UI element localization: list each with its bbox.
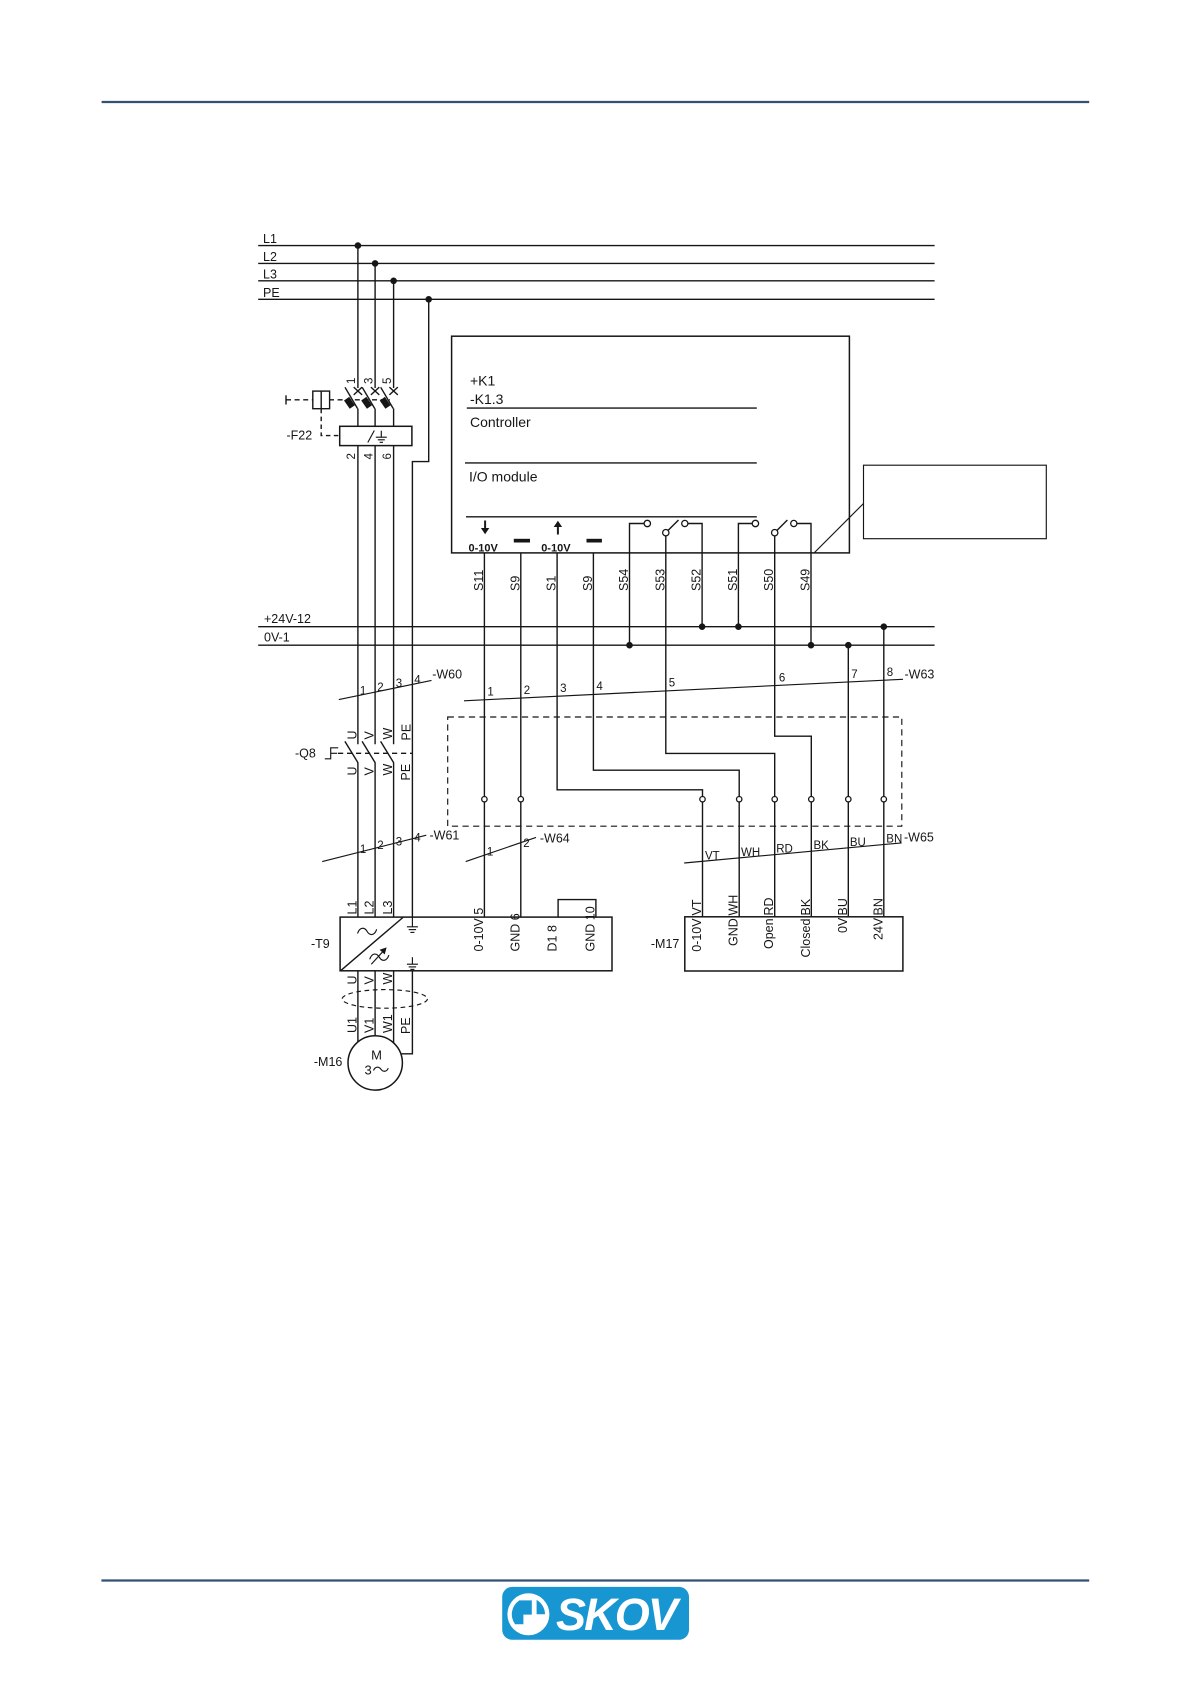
cable W60 marker line (339, 680, 432, 699)
relay S50 pivot circle (772, 530, 778, 536)
svg-text:1: 1 (487, 687, 493, 699)
callout leader line (814, 504, 863, 553)
wire L1 phase middle (357, 446, 359, 745)
controller divider line 1 (467, 407, 757, 409)
svg-text:3: 3 (560, 683, 566, 695)
svg-text:PE: PE (399, 1017, 413, 1034)
junction L1 tap (355, 242, 362, 249)
relay S49 stub (797, 524, 811, 553)
svg-text:1: 1 (360, 844, 366, 856)
svg-text:5: 5 (382, 378, 394, 384)
shielded cable dashed oval (342, 990, 427, 1009)
svg-text:RD: RD (762, 897, 776, 915)
analog input arrow S1 (554, 521, 562, 535)
svg-text:1: 1 (360, 686, 366, 698)
svg-text:W1: W1 (381, 1014, 395, 1033)
relay S52 stub (688, 524, 702, 553)
switch Q8 blade pole2 (362, 741, 375, 762)
controller divider line 3 (466, 516, 757, 518)
T9 jumper D1 to GND10 (558, 900, 596, 918)
junction S52 to +24V (699, 623, 706, 630)
breaker F22 overload pole2 (364, 399, 370, 407)
svg-text:WH: WH (741, 847, 760, 859)
SKOV logo plate (502, 1587, 689, 1640)
svg-text:GND: GND (727, 918, 741, 946)
svg-text:4: 4 (414, 674, 421, 686)
breaker F22 actuator dashed link (286, 399, 390, 401)
breaker F22 trip box slash (368, 431, 375, 443)
svg-text:3: 3 (365, 1063, 372, 1078)
wire S9 to T9 GND (520, 553, 522, 917)
breaker F22 contact X pole3 (389, 387, 397, 395)
relay S52 contact circle (682, 520, 688, 526)
wire V T9 to motor (374, 971, 376, 1036)
wire L3 phase middle (393, 446, 395, 745)
SKOV logo emblem circle (507, 1593, 549, 1635)
wire L1 phase upper (357, 246, 359, 388)
breaker F22 trip dashed link (321, 409, 340, 436)
svg-text:-Q8: -Q8 (295, 747, 316, 761)
analog gnd dash left (514, 539, 530, 543)
svg-text:-T9: -T9 (311, 937, 330, 951)
analog gnd dash right (587, 539, 602, 543)
relay S49 contact circle (791, 520, 797, 526)
junction W63-8 to +24V (881, 623, 888, 630)
svg-text:-M16: -M16 (314, 1055, 343, 1069)
svg-text:BU: BU (850, 837, 866, 849)
bus 0V-1 (258, 644, 934, 646)
switch Q8 manual F symbol (325, 748, 338, 759)
breaker F22 trip box (340, 426, 412, 445)
svg-text:-W64: -W64 (540, 832, 570, 846)
svg-text:WH: WH (727, 895, 741, 916)
bus L3 (258, 280, 934, 282)
svg-text:3: 3 (396, 678, 402, 690)
svg-text:I/O module: I/O module (469, 469, 538, 485)
svg-text:U: U (345, 730, 359, 739)
SKOV logo emblem left hook (512, 1600, 532, 1624)
wire L2 phase middle (374, 446, 376, 745)
controller divider line 2 (465, 462, 757, 464)
svg-text:2: 2 (377, 840, 383, 852)
bus L1 (258, 245, 934, 247)
T9 diagonal divider (341, 918, 403, 971)
connector pin circle BU (846, 797, 851, 802)
page footer rule (101, 1579, 1089, 1581)
wire S50 to M17 Closed (775, 553, 812, 917)
cable W61 marker line (322, 835, 426, 861)
breaker F22 actuator end tick (285, 395, 287, 404)
relay contact S54 circle (644, 520, 650, 526)
svg-text:2: 2 (524, 685, 530, 697)
callout note box (864, 465, 1047, 539)
svg-text:RD: RD (776, 844, 793, 856)
svg-text:+K1: +K1 (470, 373, 496, 389)
svg-text:V: V (363, 731, 377, 740)
connector pin circle BK (809, 797, 814, 802)
wire S1 to M17 0-10V (557, 553, 702, 917)
svg-text:U1: U1 (345, 1017, 359, 1033)
svg-text:7: 7 (851, 669, 857, 681)
actuator M17 box (685, 917, 903, 971)
relay contact S54 stub (630, 524, 644, 553)
svg-text:+24V-12: +24V-12 (264, 612, 311, 626)
svg-text:Open: Open (762, 918, 776, 949)
junction PE tap (425, 296, 432, 303)
bus +24V-12 (258, 626, 934, 628)
svg-text:D1 8: D1 8 (546, 925, 560, 951)
wire V Q8 to T9 (374, 762, 376, 917)
switch Q8 blade pole1 (345, 741, 358, 762)
svg-text:4: 4 (364, 453, 376, 460)
connector pin circle BN (881, 797, 886, 802)
svg-text:GND 10: GND 10 (583, 906, 597, 951)
svg-text:L1: L1 (345, 901, 359, 915)
junction S49 to 0V (808, 642, 815, 649)
svg-text:0V: 0V (836, 917, 850, 933)
connector pin circle WH (737, 797, 742, 802)
cable W63 marker line (464, 679, 903, 701)
junction W63-7 to 0V (845, 642, 852, 649)
svg-text:-W60: -W60 (432, 668, 462, 682)
svg-text:4: 4 (414, 833, 421, 845)
breaker F22 blade pole2 (362, 387, 375, 408)
breaker F22 trip box earth (376, 431, 387, 443)
wire S54 to 0V bus (629, 553, 631, 645)
svg-text:2: 2 (377, 682, 383, 694)
wire pole1 to trip box (357, 409, 359, 427)
svg-text:L2: L2 (363, 901, 377, 915)
connector pin circle VT (700, 797, 705, 802)
wire L3 phase upper (393, 281, 395, 388)
wire PE drop (412, 299, 428, 917)
relay contact S51 stub (738, 524, 752, 553)
svg-text:BK: BK (799, 898, 813, 915)
svg-text:0-10V: 0-10V (690, 918, 704, 952)
svg-text:PE: PE (399, 764, 413, 781)
breaker F22 contact X pole1 (354, 387, 362, 395)
wire L2 phase upper (374, 263, 376, 388)
svg-text:BK: BK (814, 840, 830, 852)
svg-text:3: 3 (364, 378, 376, 384)
svg-text:8: 8 (887, 667, 893, 679)
svg-text:2: 2 (346, 453, 358, 459)
svg-text:W: W (381, 728, 395, 740)
svg-text:Closed: Closed (799, 919, 813, 958)
wire W T9 to motor (393, 971, 395, 1043)
svg-text:4: 4 (596, 681, 603, 693)
svg-text:L2: L2 (263, 250, 277, 264)
relay S53 wire stub (665, 536, 667, 553)
shield dashed enclosure (448, 717, 902, 826)
svg-text:BN: BN (871, 898, 885, 915)
wire pole2 to trip box (374, 409, 376, 427)
relay S53 blade (668, 520, 678, 530)
svg-text:-K1.3: -K1.3 (470, 391, 504, 407)
T9 variable frequency symbol (370, 948, 389, 964)
svg-text:-W61: -W61 (430, 829, 460, 843)
svg-text:L1: L1 (263, 232, 277, 246)
T9 AC sine symbol (358, 928, 377, 934)
page header rule (102, 101, 1090, 103)
wire S51 to +24V bus (737, 553, 739, 627)
wire S53 to M17 Open (666, 553, 775, 917)
wire S9b to M17 GND (593, 553, 739, 917)
svg-text:24V: 24V (871, 917, 885, 940)
motor M16 tilde (374, 1067, 389, 1071)
T9 earth symbol top (407, 917, 418, 932)
wire +24V to M17 24V (883, 627, 885, 917)
relay contact S51 circle (752, 520, 758, 526)
controller K1 box (452, 336, 850, 553)
breaker F22 actuator square (313, 391, 330, 409)
junction S51 to +24V (735, 623, 742, 630)
svg-text:M: M (371, 1048, 382, 1063)
svg-text:-W63: -W63 (905, 668, 935, 682)
junction S54 to 0V (626, 642, 633, 649)
connector pin circle W64-2 (518, 797, 523, 802)
relay S53 pivot circle (663, 530, 669, 536)
svg-text:Controller: Controller (470, 414, 531, 430)
svg-text:-W65: -W65 (904, 831, 934, 845)
wire PE T9 to motor (402, 971, 413, 1054)
SKOV logo emblem right hook (537, 1600, 545, 1614)
wire S52 to +24V bus (701, 553, 703, 627)
wire S11 to T9 0-10V (483, 553, 485, 917)
svg-text:SKOV: SKOV (556, 1589, 682, 1640)
switch Q8 blade pole3 (381, 741, 394, 762)
switch Q8 actuator dashed line (338, 752, 412, 754)
svg-text:L3: L3 (381, 901, 395, 915)
svg-text:PE: PE (263, 286, 280, 300)
svg-text:VT: VT (690, 899, 704, 915)
bus PE (258, 298, 934, 300)
relay S50 wire stub (774, 536, 776, 553)
svg-text:GND 6: GND 6 (508, 913, 522, 951)
wire W Q8 to T9 (393, 762, 395, 917)
breaker F22 contact X pole2 (371, 387, 379, 395)
breaker F22 overload pole3 (382, 399, 388, 407)
svg-text:6: 6 (382, 453, 394, 459)
svg-text:3: 3 (396, 836, 402, 848)
junction L3 tap (390, 278, 397, 285)
svg-text:5: 5 (669, 678, 675, 690)
svg-text:0V-1: 0V-1 (264, 631, 290, 645)
cable W65 marker line (684, 843, 901, 863)
analog output arrow S11 (481, 521, 489, 535)
motor M16 circle (348, 1036, 402, 1090)
svg-text:VT: VT (705, 851, 720, 863)
breaker F22 overload pole1 (347, 399, 353, 407)
svg-text:BN: BN (886, 833, 902, 845)
svg-text:-M17: -M17 (651, 937, 680, 951)
wire pole3 to trip box (393, 409, 395, 427)
T9 earth symbol bottom (407, 957, 418, 969)
breaker F22 blade pole1 (345, 387, 358, 408)
svg-text:-F22: -F22 (287, 429, 313, 443)
wire S49 to 0V bus (810, 553, 812, 645)
connector pin circle W64-1 (482, 797, 487, 802)
svg-text:2: 2 (523, 838, 529, 850)
breaker F22 blade pole3 (381, 387, 394, 408)
svg-text:0-10V: 0-10V (469, 543, 499, 555)
relay S50 blade (777, 520, 787, 530)
wire 0V to M17 0V (847, 645, 849, 917)
svg-text:V1: V1 (363, 1018, 377, 1033)
svg-text:0-10V 5: 0-10V 5 (472, 908, 486, 952)
svg-text:0-10V: 0-10V (541, 543, 571, 555)
wire U Q8 to T9 (357, 762, 359, 917)
svg-text:L3: L3 (263, 268, 277, 282)
cable W64 marker line (466, 837, 536, 861)
svg-text:1: 1 (487, 847, 493, 859)
bus L2 (258, 262, 934, 264)
svg-text:6: 6 (779, 672, 785, 684)
svg-text:BU: BU (836, 898, 850, 915)
junction L2 tap (372, 260, 379, 267)
wire U T9 to motor (357, 971, 359, 1042)
svg-text:PE: PE (399, 724, 413, 741)
svg-text:1: 1 (346, 378, 358, 384)
frequency converter T9 box (340, 917, 612, 971)
connector pin circle RD (772, 797, 777, 802)
